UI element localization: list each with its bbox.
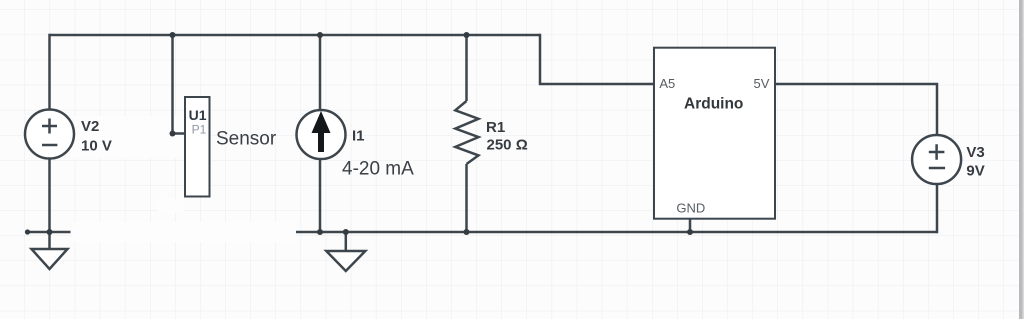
ground: below V2 bbox=[32, 232, 68, 269]
wire: R1 bottom lead bbox=[465, 164, 468, 232]
node: stub left endpoint bbox=[25, 229, 30, 234]
voltage source V3 bbox=[912, 135, 961, 184]
label V2 value bbox=[81, 118, 112, 155]
wire: V2 bottom lead bbox=[48, 158, 51, 232]
node: V2 ground junction bbox=[47, 229, 53, 235]
svg-text:9V: 9V bbox=[966, 163, 984, 180]
wire: top rail bbox=[50, 34, 541, 37]
node: ground junction bbox=[343, 229, 349, 235]
wire: U1 branch vertical bbox=[171, 34, 174, 134]
wire: I1 top lead bbox=[319, 34, 322, 110]
voltage source V2 bbox=[25, 110, 74, 159]
wire: I1 bottom lead bbox=[319, 159, 322, 232]
current source I1 bbox=[297, 110, 346, 159]
label R1 value bbox=[486, 119, 528, 154]
svg-text:U1: U1 bbox=[189, 107, 207, 123]
node: U1 pin P1 junction bbox=[170, 131, 176, 137]
svg-text:P1: P1 bbox=[192, 122, 207, 136]
wire: 5V to V3 bbox=[775, 84, 937, 135]
node: rail-I1 junction bbox=[317, 32, 323, 38]
svg-text:Arduino: Arduino bbox=[684, 96, 743, 113]
svg-text:5V: 5V bbox=[754, 76, 770, 91]
svg-text:10 V: 10 V bbox=[81, 138, 112, 155]
node: I1 bottom junction bbox=[317, 229, 323, 235]
svg-text:V2: V2 bbox=[81, 118, 99, 135]
svg-text:A5: A5 bbox=[659, 76, 675, 91]
sensor U1 bbox=[185, 97, 210, 197]
wire: bottom rail bbox=[296, 231, 937, 234]
svg-text:GND: GND bbox=[676, 201, 705, 216]
node: R1 bottom junction bbox=[464, 229, 470, 235]
label V3 value bbox=[966, 144, 984, 180]
svg-text:4-20 mA: 4-20 mA bbox=[342, 159, 414, 180]
node: Arduino GND junction bbox=[687, 229, 693, 235]
svg-text:250 Ω: 250 Ω bbox=[487, 137, 528, 154]
wire: U1 pin stub bbox=[173, 132, 186, 135]
wire: V2 top lead bbox=[48, 34, 51, 110]
svg-text:Sensor: Sensor bbox=[216, 129, 277, 150]
resistor R1 bbox=[455, 101, 478, 164]
node: rail-U1 junction bbox=[170, 32, 176, 38]
node: rail-R1 junction bbox=[464, 32, 470, 38]
svg-text:R1: R1 bbox=[486, 119, 505, 136]
ground: below I1 bbox=[326, 232, 365, 271]
svg-text:V3: V3 bbox=[966, 144, 984, 161]
svg-text:I1: I1 bbox=[352, 128, 365, 145]
wire: Arduino GND pin lead bbox=[689, 219, 692, 232]
Arduino module bbox=[654, 48, 775, 219]
wire: R1 top lead bbox=[465, 34, 468, 101]
wire: step down to Arduino A5 bbox=[540, 34, 654, 84]
wire: V2 ground stub bbox=[27, 231, 71, 234]
wire: V3 bottom lead bbox=[936, 184, 939, 233]
